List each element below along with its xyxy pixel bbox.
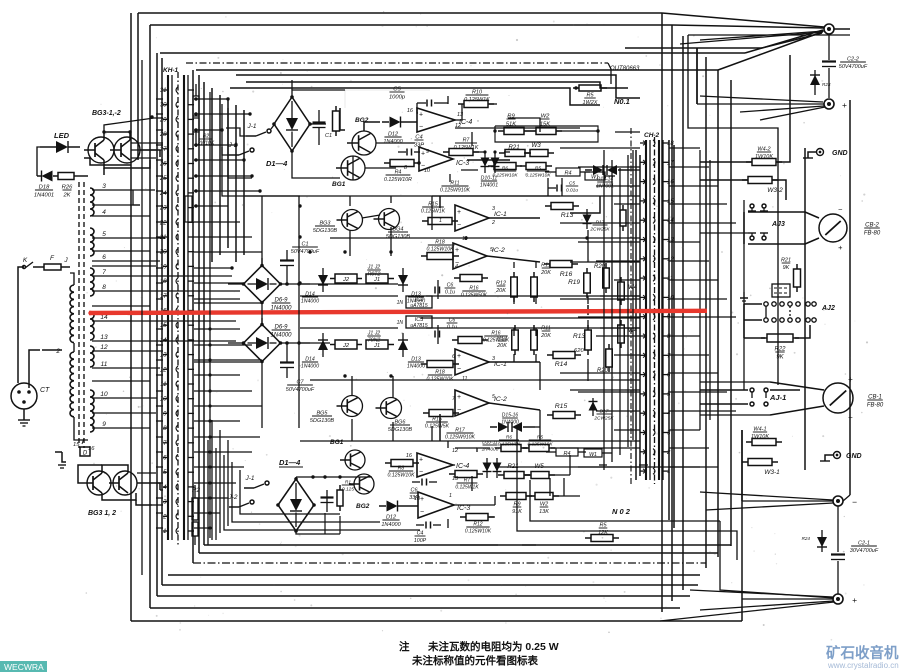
- wire right vertical 6: [717, 70, 719, 557]
- wire rail y196 ext: [245, 195, 640, 197]
- svg-text:R19: R19: [568, 279, 580, 286]
- svg-text:J2: J2: [342, 277, 350, 283]
- wire bridge bot out: [292, 124, 340, 178]
- svg-text:30: 30: [160, 103, 167, 109]
- pins IC-2 upper: [452, 236, 493, 270]
- svg-text:GND: GND: [832, 150, 848, 157]
- wire inner right box: [688, 35, 850, 385]
- wire left extra v2: [209, 92, 211, 538]
- wire lower mid v2: [550, 478, 564, 496]
- svg-text:17: 17: [667, 160, 674, 166]
- svg-text:GND: GND: [846, 453, 862, 460]
- label D13 upper: [407, 292, 425, 305]
- label J1J2 upper: [367, 265, 381, 278]
- resistor R13h lower: [547, 352, 581, 359]
- svg-text:R24: R24: [802, 536, 811, 541]
- label 15 16: [73, 438, 95, 452]
- wire rail y380: [310, 379, 640, 381]
- svg-text:0.125W910K: 0.125W910K: [440, 188, 471, 194]
- label BG3-1-2: [92, 110, 121, 117]
- svg-text:J1: J1: [373, 343, 380, 349]
- svg-text:11: 11: [462, 376, 468, 382]
- svg-text:J-1: J-1: [246, 123, 256, 130]
- svg-text:0.125W1K: 0.125W1K: [454, 145, 479, 151]
- svg-text:AJ-1: AJ-1: [769, 393, 786, 402]
- pins IC-2 lower: [452, 394, 495, 402]
- svg-text:BG2: BG2: [356, 503, 370, 510]
- wire upper misc1: [340, 108, 345, 130]
- resistor R21 (bot): [498, 472, 530, 479]
- label W4-2: [755, 147, 773, 161]
- wire r17 line: [420, 440, 560, 442]
- resistor R5 (bot): [523, 445, 555, 452]
- wire pre-strip v1: [603, 150, 605, 470]
- wire led loop: [37, 147, 40, 176]
- capacitor C6 lower: [435, 325, 440, 344]
- wire left nested v4: [235, 105, 237, 262]
- wire bottom bus 4: [162, 584, 698, 586]
- connector CH-2 rail c: [658, 140, 660, 480]
- resistor R9 (bot): [500, 493, 532, 500]
- svg-text:22: 22: [159, 220, 167, 226]
- diode D13-14 pair: [585, 165, 630, 175]
- wire aj3 feeds: [700, 232, 748, 234]
- label IC-1 upper: [494, 211, 507, 218]
- label BG6 mid: [388, 420, 412, 434]
- svg-text:30V4700uF: 30V4700uF: [850, 548, 879, 554]
- svg-text:8: 8: [102, 284, 106, 291]
- diode D12 (bot): [379, 501, 418, 512]
- svg-text:未注瓦数的电阻均为 0.25 W: 未注瓦数的电阻均为 0.25 W: [427, 640, 559, 653]
- terminal T2 plus: [824, 99, 847, 110]
- svg-text:2: 2: [162, 514, 167, 520]
- svg-text:BG1: BG1: [332, 181, 346, 188]
- op-amp IC-2 lower: [455, 390, 489, 416]
- svg-text:5: 5: [102, 231, 106, 238]
- svg-text:2CW25K: 2CW25K: [593, 415, 614, 421]
- svg-text:3: 3: [163, 500, 167, 506]
- wire r9w2 bot: [455, 496, 580, 505]
- connector KH-1 rail a: [167, 75, 169, 540]
- label R4: [384, 170, 412, 183]
- capacitor C4 (bot): [412, 479, 437, 486]
- svg-text:J1: J1: [373, 277, 380, 283]
- wire pre-strip v2: [611, 160, 613, 462]
- wire pre-strip v4: [627, 155, 629, 447]
- wire ch2 bridge top rail: [296, 475, 372, 479]
- op-amp IC-2 upper: [453, 243, 487, 269]
- diode D13 lower: [398, 333, 408, 357]
- svg-text:0.125W1K: 0.125W1K: [464, 97, 490, 103]
- wire amp1 to strip: [615, 132, 640, 170]
- diode D14 lower: [318, 333, 328, 357]
- label BG2 (top): [355, 117, 369, 124]
- label R5 bus: [583, 93, 598, 107]
- svg-text:R13: R13: [573, 333, 585, 340]
- svg-text:12: 12: [452, 448, 458, 454]
- wire led to strip b: [90, 149, 156, 151]
- bridge rectifier D1-4 (top): [272, 95, 312, 153]
- svg-text:W4: W4: [628, 328, 638, 334]
- svg-text:13K: 13K: [539, 509, 549, 515]
- label D17 lower: [593, 409, 614, 422]
- resistor R9 top: [498, 128, 530, 135]
- meter CB-2: [819, 205, 847, 252]
- svg-text:+: +: [419, 112, 423, 119]
- svg-text:CH-2: CH-2: [644, 132, 660, 139]
- diode D10 (bot): [483, 458, 492, 478]
- svg-text:18: 18: [667, 141, 674, 147]
- svg-text:uA7815: uA7815: [410, 303, 427, 309]
- wire left nested v3: [227, 100, 229, 248]
- wire amp1 out: [504, 118, 540, 152]
- wire channel2 nest 3: [240, 470, 340, 514]
- svg-text:16: 16: [407, 108, 414, 114]
- resistor R26: [58, 173, 88, 180]
- resistor W4-1: [746, 439, 782, 446]
- wire tap14 ext: [168, 320, 236, 322]
- svg-text:1N4000: 1N4000: [482, 446, 499, 452]
- label R22: [774, 347, 786, 361]
- label R15 lower: [425, 417, 450, 430]
- wire bg56 net: [352, 376, 393, 441]
- svg-text:F: F: [50, 255, 55, 262]
- wire left extra v1: [141, 60, 143, 575]
- wire right vertical 7: [730, 80, 732, 546]
- label D13 lower: [407, 357, 425, 370]
- label 1N4000 (bot): [482, 440, 499, 453]
- transistor BG3-2b: [109, 471, 137, 495]
- wire output feed B: [495, 466, 700, 468]
- wire pre-strip v5: [632, 150, 634, 440]
- capacitor C1 (bot): [321, 490, 334, 512]
- resistor W4 upper: [618, 277, 625, 305]
- wire ch2 bottom rails: [300, 559, 640, 561]
- resistor R5 bus: [573, 85, 607, 91]
- wire CH-2 pin stubs right: [669, 148, 736, 467]
- wire mid verticals: [514, 230, 588, 381]
- wire lower mid v3: [539, 362, 541, 441]
- meter CB-1: [823, 375, 853, 422]
- resistor R22: [761, 334, 799, 342]
- svg-text:1N: 1N: [397, 320, 404, 326]
- wire CH-2 side v3: [668, 140, 670, 520]
- wire bg34 net: [350, 196, 391, 256]
- svg-text:IC-4: IC-4: [456, 463, 469, 470]
- connector CH-2 rail d: [662, 140, 664, 480]
- watermark WECWRA: [0, 661, 47, 672]
- fuse F: [40, 255, 70, 270]
- relay AJ2 contacts row2: [764, 318, 816, 322]
- label R2 top strip: [197, 134, 215, 147]
- wire right vertical 8: [741, 430, 743, 621]
- svg-text:IC-3: IC-3: [457, 505, 470, 512]
- label R19 upper: [568, 279, 580, 286]
- svg-text:1N4000: 1N4000: [381, 522, 401, 528]
- resistor R8 (bot): [385, 460, 419, 467]
- resistor R16v lower: [452, 337, 488, 344]
- svg-text:3: 3: [492, 356, 495, 362]
- svg-text:2W10K: 2W10K: [197, 141, 215, 147]
- svg-text:1N4001: 1N4001: [34, 192, 54, 198]
- svg-text:www.crystalradio.cn: www.crystalradio.cn: [827, 661, 899, 670]
- svg-text:CT: CT: [40, 387, 50, 394]
- svg-text:26: 26: [159, 162, 167, 168]
- svg-text:3: 3: [492, 206, 495, 212]
- svg-text:50V4700uF: 50V4700uF: [291, 249, 320, 255]
- resistor R20 upper: [603, 263, 610, 293]
- svg-text:0.125W10K: 0.125W10K: [387, 473, 415, 479]
- wire left nested lower v2: [219, 430, 221, 533]
- wire right mid: [789, 55, 791, 130]
- resistor W1 box mid: [585, 172, 615, 181]
- resistor R4 box mid: [545, 168, 590, 177]
- svg-text:R21: R21: [508, 144, 519, 151]
- wire channel2 nest 2: [232, 462, 380, 522]
- label D17 upper: [589, 220, 610, 233]
- wire mid vertical x299: [298, 196, 300, 428]
- wire bottom bus 3 dotted: [193, 562, 706, 564]
- wire left vertical 4: [156, 53, 158, 596]
- svg-text:50V4700uF: 50V4700uF: [839, 64, 868, 70]
- bridge rectifier D6-9 lower: [242, 323, 283, 364]
- capacitor C2-2: [822, 34, 836, 98]
- note line 2: [411, 654, 538, 667]
- transformer primary winding upper: [70, 285, 74, 343]
- wire opamp1 verticals: [448, 96, 472, 182]
- wire KH-1 pin stubs right: [194, 99, 262, 528]
- wire output feed D: [720, 521, 834, 598]
- svg-text:5DG130B: 5DG130B: [386, 234, 410, 240]
- svg-text:0.125W10K: 0.125W10K: [527, 441, 553, 447]
- svg-text:W3-2: W3-2: [767, 187, 783, 194]
- label C4 (top): [414, 135, 424, 149]
- svg-text:+: +: [421, 151, 425, 158]
- resistor W2 top: [530, 128, 562, 135]
- capacitor C1 mid: [280, 250, 294, 286]
- resistor W3-2: [742, 177, 778, 184]
- label C4b (bot): [414, 531, 427, 544]
- svg-text:2K: 2K: [62, 192, 71, 198]
- svg-text:6: 6: [452, 354, 455, 360]
- op-amp IC-1 upper: [455, 205, 489, 231]
- svg-text:1N: 1N: [397, 300, 404, 306]
- svg-text:R2: R2: [192, 487, 200, 494]
- junction dots left area 2: [208, 327, 211, 529]
- svg-text:IC-2: IC-2: [494, 396, 507, 403]
- terminal T4 plus: [833, 594, 857, 605]
- wire w42 net: [700, 130, 790, 200]
- resistor R5b top: [520, 163, 552, 170]
- svg-text:31: 31: [160, 88, 167, 94]
- svg-text:2: 2: [491, 220, 495, 226]
- svg-text:未注标称值的元件看图标表: 未注标称值的元件看图标表: [411, 654, 538, 667]
- wire left nested lower v3: [227, 440, 229, 526]
- svg-text:0.1u: 0.1u: [445, 290, 455, 296]
- transistor BG1 (top): [336, 156, 365, 180]
- svg-text:FB-80: FB-80: [867, 403, 884, 409]
- transistor BG3 mid: [337, 210, 363, 231]
- wire primary mid: [73, 343, 75, 352]
- connector KH-1 center dash-dot: [177, 72, 179, 545]
- wire q corner ch1: [345, 90, 430, 108]
- label W3-1: [764, 469, 780, 476]
- capacitor C2-1: [831, 506, 845, 594]
- label C6 upper: [445, 283, 456, 296]
- wire bridge lower io: [225, 318, 310, 362]
- svg-text:BG3-1,-2: BG3-1,-2: [92, 110, 121, 117]
- connector CH-2 pins 18-1: [640, 140, 674, 475]
- svg-text:20K: 20K: [540, 333, 551, 339]
- svg-text:5DG130B: 5DG130B: [310, 418, 334, 424]
- wire bg3b top: [78, 465, 128, 483]
- label R10: [464, 90, 490, 104]
- diode zener right top: [810, 70, 831, 95]
- label R9 (bot): [512, 502, 522, 516]
- label R5b top: [525, 166, 551, 179]
- wire bottom bus 2: [199, 552, 718, 554]
- connector CH-2 rail b: [649, 140, 651, 480]
- resistor on strip rail: [185, 196, 192, 222]
- bridge rectifier D6-9 upper: [242, 264, 283, 305]
- svg-text:0.1u: 0.1u: [447, 325, 457, 331]
- wire mid rails lower: [300, 328, 640, 343]
- wire tap3 bend: [133, 190, 140, 205]
- connector KH-1 pins 31-1: [159, 87, 194, 535]
- svg-text:1: 1: [439, 218, 442, 224]
- transistor BG3-1: [84, 137, 114, 163]
- svg-text:1: 1: [449, 493, 452, 499]
- wire bg3 top: [104, 132, 130, 140]
- label BG5 mid: [310, 411, 334, 425]
- svg-text:5: 5: [163, 470, 167, 476]
- svg-text:+: +: [457, 394, 461, 401]
- svg-text:0.125W10K: 0.125W10K: [525, 172, 551, 178]
- wire left vertical 2: [137, 13, 139, 160]
- label IC-4 (bot): [456, 463, 469, 470]
- svg-text:13: 13: [457, 112, 464, 118]
- wire right col v744: [743, 200, 745, 390]
- label IC-2 lower: [494, 396, 507, 403]
- wire bottom bus 8: [168, 574, 700, 576]
- label KH-1: [163, 67, 179, 74]
- wire r11 line: [432, 195, 560, 197]
- svg-text:K: K: [23, 257, 28, 264]
- resistor R14 lower: [547, 412, 581, 419]
- svg-text:100P: 100P: [414, 538, 427, 544]
- note line 1: [399, 640, 559, 653]
- svg-text:20K: 20K: [495, 288, 506, 294]
- label W3 (bot): [534, 463, 544, 470]
- svg-text:10: 10: [160, 397, 167, 403]
- resistor R7: [443, 149, 479, 156]
- wire upper bg join: [353, 122, 380, 180]
- resistor R13h upper: [545, 203, 579, 210]
- svg-text:20K: 20K: [496, 343, 507, 349]
- wire bg3b to strip: [137, 473, 163, 505]
- label IC-4 (top): [459, 119, 472, 126]
- gnd GND top: [803, 149, 848, 159]
- pins IC-1 upper: [439, 206, 495, 226]
- resistor R7 (bot): [449, 471, 483, 478]
- transistor BG6 mid: [376, 398, 402, 419]
- wire output feed E: [460, 552, 640, 554]
- transistor BG2 (bot): [349, 474, 374, 494]
- resistor R2 top strip: [193, 84, 199, 147]
- svg-text:7: 7: [102, 269, 106, 276]
- wire amp1 rail: [300, 195, 430, 197]
- label R20 upper: [594, 264, 606, 270]
- svg-text:6: 6: [102, 254, 106, 261]
- svg-text:4: 4: [455, 264, 458, 270]
- label R21 (bot): [507, 463, 518, 470]
- svg-text:9: 9: [426, 149, 429, 155]
- transistor BG2 (top): [347, 131, 376, 155]
- wire fan T1: [680, 31, 824, 44]
- resistor J1 box upper: [366, 274, 394, 283]
- svg-text:−: −: [848, 413, 853, 422]
- svg-text:10: 10: [100, 391, 108, 398]
- wire inner box ch2: [208, 440, 216, 545]
- label R26: [62, 185, 73, 199]
- resistor R12 upper: [511, 272, 518, 302]
- wire right vertical 1: [661, 13, 663, 612]
- svg-text:9: 9: [102, 421, 106, 428]
- svg-text:1W10K: 1W10K: [751, 434, 769, 440]
- svg-text:BG1: BG1: [330, 439, 344, 446]
- svg-text:5: 5: [492, 394, 495, 400]
- resistor R12 lower: [512, 325, 519, 355]
- op-amp IC-4 (top): [417, 108, 455, 132]
- svg-text:FB-80: FB-80: [864, 231, 881, 237]
- pins IC-3 (bot): [414, 493, 452, 502]
- resistor J2 box lower: [330, 340, 362, 349]
- svg-text:0.125W10R: 0.125W10R: [384, 177, 412, 183]
- capacitor C4b (bot): [416, 522, 441, 529]
- svg-text:R23: R23: [822, 82, 831, 87]
- label R16v upper: [461, 286, 488, 299]
- svg-text:+: +: [457, 353, 461, 360]
- wire plug to primary: [29, 350, 40, 388]
- wire left vertical 3: [149, 25, 151, 608]
- label IC-3 (bot): [457, 505, 470, 512]
- svg-text:12: 12: [100, 344, 108, 351]
- label R18 lower: [426, 370, 454, 383]
- wire tap13 ext: [168, 340, 236, 342]
- wire bg3b right: [137, 483, 160, 490]
- diode D17 upper: [583, 209, 592, 229]
- transistor BG1 (bot): [340, 450, 365, 470]
- resistor R21 top: [499, 150, 531, 157]
- svg-text:25: 25: [159, 176, 167, 182]
- label W4 lower: [628, 328, 638, 334]
- pins IC-4: [407, 108, 464, 129]
- svg-text:J-2: J-2: [227, 494, 237, 501]
- op-amp IC-4 (bot): [417, 453, 453, 477]
- wire inner box ch1b: [222, 104, 300, 196]
- capacitor C5: [417, 100, 448, 107]
- wire KH-1 pin stubs left: [156, 99, 163, 528]
- resistor R18 upper: [421, 253, 459, 260]
- wire pre-strip dashdot: [630, 128, 632, 484]
- svg-text:1N4000: 1N4000: [270, 333, 292, 339]
- label AJ3: [771, 221, 785, 228]
- label CB-1: [867, 395, 884, 409]
- resistor W5 (bot): [584, 449, 612, 458]
- regulator IC7 upper: [397, 296, 432, 309]
- label CH-2: [644, 132, 660, 139]
- resistor W3 top: [524, 150, 554, 157]
